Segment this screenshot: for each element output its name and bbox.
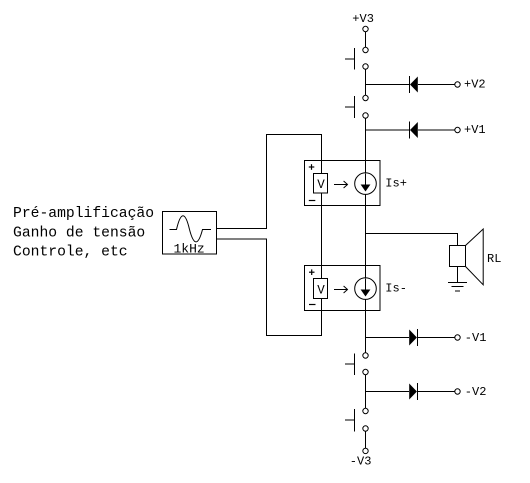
current source Is- arrow xyxy=(365,279,367,291)
svg-text:-V1: -V1 xyxy=(465,331,487,345)
svg-text:V: V xyxy=(317,284,325,298)
wire rail SW4 to -V3 terminal xyxy=(365,431,367,448)
svg-text:Ganho de tensão: Ganho de tensão xyxy=(13,225,145,241)
wire -V1 branch left xyxy=(366,337,410,339)
current source Is+ arrow xyxy=(365,174,367,186)
current source Is- circle xyxy=(355,278,377,300)
arrow control Is- xyxy=(334,286,348,293)
voltmeter V2 minus mark xyxy=(309,304,316,306)
wire +V1 branch right xyxy=(418,129,455,131)
switch SW3 xyxy=(345,353,368,375)
wire rail SW1 to SW2 through +V2 junction xyxy=(365,69,367,95)
wire source top output to V1+ xyxy=(217,135,322,229)
wire rail SW3 to SW4 through -V2 junction xyxy=(365,375,367,409)
svg-text:+V3: +V3 xyxy=(352,12,374,26)
annotation text block xyxy=(13,206,154,261)
wire +V1 branch left xyxy=(366,129,410,131)
svg-text:-V2: -V2 xyxy=(465,385,487,399)
voltmeter V2 plus mark xyxy=(309,269,315,275)
diode D-V2 xyxy=(409,383,417,400)
current source Is+ circle xyxy=(355,173,377,195)
block Is+ box xyxy=(305,161,381,206)
diode D-V1 xyxy=(409,329,417,346)
svg-text:RL: RL xyxy=(487,252,501,266)
source VG1 sine wave xyxy=(170,216,212,242)
node +V2 terminal xyxy=(455,82,460,87)
wire source bottom output to V2- xyxy=(217,239,322,336)
wire V1- to V2+ xyxy=(321,193,323,279)
node -V2 terminal xyxy=(455,389,460,394)
switch SW2 xyxy=(345,95,368,118)
ground xyxy=(448,283,467,291)
node -V3 terminal xyxy=(363,448,368,453)
node -V1 terminal xyxy=(455,335,460,340)
wire rail Is- to SW3 through -V1 junction xyxy=(365,299,367,352)
speaker RL driver box xyxy=(450,246,466,267)
switch SW1 xyxy=(345,47,368,69)
voltmeter V1 box xyxy=(314,174,328,194)
block Is- box xyxy=(305,266,381,311)
node +V1 terminal xyxy=(455,127,460,132)
voltmeter V1 plus mark xyxy=(309,164,315,170)
svg-text:Pré-amplificação: Pré-amplificação xyxy=(13,206,154,222)
arrow control Is+ xyxy=(334,181,348,188)
wire rail +V3 terminal to switch SW1 xyxy=(365,32,367,48)
svg-text:Is+: Is+ xyxy=(385,177,407,191)
wire rail Is+ to Is- through speaker junction xyxy=(365,194,367,277)
voltmeter V2 box xyxy=(314,279,328,299)
svg-text:Controle, etc: Controle, etc xyxy=(13,245,128,261)
node +V3 terminal xyxy=(363,26,368,31)
wire -V1 branch right xyxy=(417,337,454,339)
source VG1 box xyxy=(163,212,217,255)
voltmeter V1 minus mark xyxy=(309,200,316,202)
svg-text:+V1: +V1 xyxy=(464,123,486,137)
diode D+V2 xyxy=(410,76,418,93)
wire -V2 branch right xyxy=(417,391,454,393)
svg-text:+V2: +V2 xyxy=(464,78,486,92)
svg-text:V: V xyxy=(317,178,325,192)
wire speaker to ground xyxy=(457,267,459,283)
svg-text:Is-: Is- xyxy=(385,282,407,296)
wire rail SW2 to Is+ through +V1 junction xyxy=(365,118,367,173)
wire -V2 branch left xyxy=(366,391,410,393)
diode D+V1 xyxy=(410,122,418,139)
wire speaker branch xyxy=(366,234,458,246)
wire +V2 branch right xyxy=(418,84,455,86)
wire +V2 branch left xyxy=(366,84,410,86)
svg-text:-V3: -V3 xyxy=(350,455,372,469)
switch SW4 xyxy=(345,408,368,431)
speaker RL horn xyxy=(466,229,484,285)
svg-text:1kHz: 1kHz xyxy=(174,242,205,257)
